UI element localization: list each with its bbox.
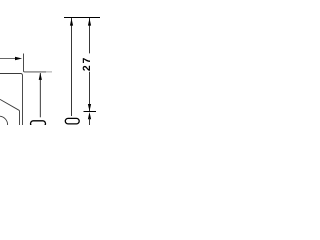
wire: part edge horizontal left with corner down — [0, 74, 23, 126]
node B arrowhead down — [88, 104, 91, 111]
node C: opposing arrow below crossbar — [88, 112, 91, 119]
node A: left vertical dimension line — [71, 18, 73, 116]
wire: top extension line — [64, 17, 101, 19]
background — [0, 0, 100, 125]
node F: slot A stadium — [65, 118, 79, 124]
wire: part diagonal edge — [0, 99, 20, 125]
node B lower segment — [89, 72, 91, 112]
node B: right vertical dimension line (27), upper segment — [89, 18, 91, 53]
node B arrowhead up — [88, 18, 91, 25]
wire: bottom-left arc — [0, 116, 8, 125]
node D arrowhead up — [39, 73, 42, 80]
node A arrowhead up — [70, 18, 73, 25]
node D: middle vertical dimension line — [39, 73, 41, 117]
svg-text:27: 27 — [81, 56, 93, 71]
node G: slot B stadium (clipped at bottom) — [31, 121, 46, 127]
wire: faded end of shelf line — [46, 71, 52, 73]
node E: left leader arrow — [0, 58, 16, 60]
wire: part edge vertical upper — [24, 54, 47, 72]
wire: bottom extension crossbar — [84, 111, 97, 113]
